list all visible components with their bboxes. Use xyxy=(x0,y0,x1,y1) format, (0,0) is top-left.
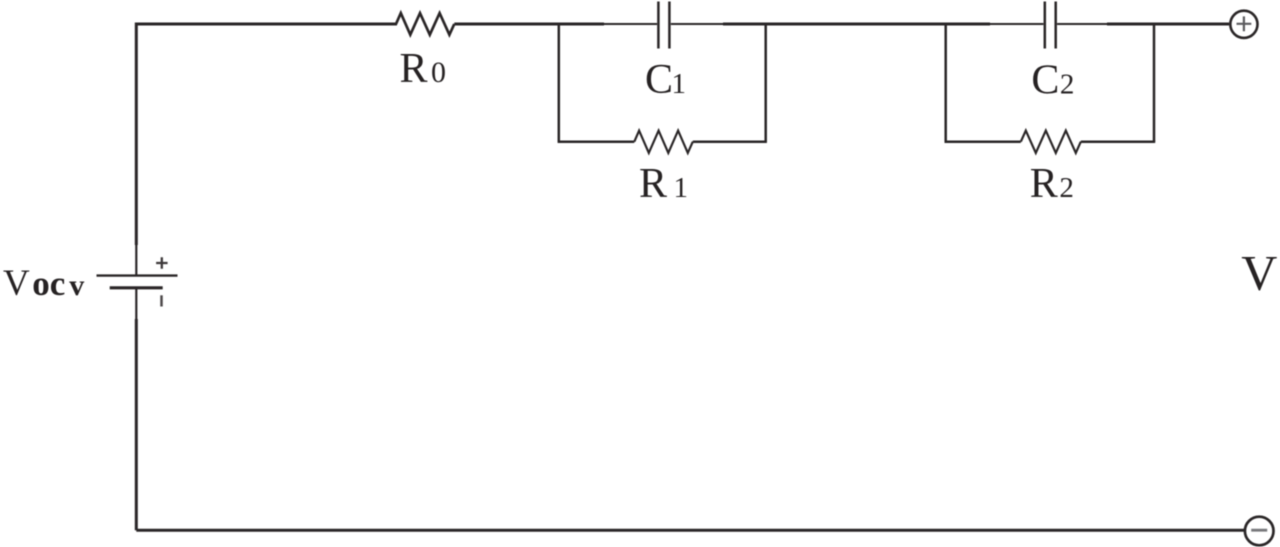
svg-text:V: V xyxy=(1241,245,1277,301)
svg-text:R2: R2 xyxy=(1030,161,1074,207)
wire: RC block 1 right vertical xyxy=(764,23,767,142)
wire: top-left corner (left rail upper + top rail to R0) xyxy=(136,24,397,245)
wire: RC block 2 left vertical xyxy=(944,23,947,142)
svg-text:R1: R1 xyxy=(639,161,688,207)
resistor R1 xyxy=(634,131,693,153)
wire: left rail lower xyxy=(135,319,138,530)
resistor R2 xyxy=(1021,131,1081,153)
wire: top rail from R0 to C1 branch xyxy=(454,23,604,26)
svg-text:R0: R0 xyxy=(400,46,447,92)
wire: RC block 1 left vertical xyxy=(558,23,561,142)
svg-text:C1: C1 xyxy=(645,57,686,103)
capacitor C2 xyxy=(990,2,1107,49)
svg-text:Vocv: Vocv xyxy=(3,263,84,304)
wire: RC block 1 bottom left segment xyxy=(558,140,635,143)
wire: RC block 2 right vertical xyxy=(1153,23,1156,142)
plus terminal xyxy=(1230,11,1257,38)
wire: top rail from C2 to plus terminal xyxy=(1107,23,1229,26)
wire: bottom rail xyxy=(136,529,1244,532)
wire: RC block 1 bottom right segment xyxy=(693,140,767,143)
resistor R0 xyxy=(396,13,454,35)
svg-text:C2: C2 xyxy=(1031,58,1074,104)
wire: RC block 2 bottom right segment xyxy=(1081,140,1155,143)
wire: top rail from C1 to C2 branch xyxy=(723,23,990,26)
minus terminal xyxy=(1245,517,1274,546)
battery V_OCV xyxy=(97,244,178,320)
capacitor C1 xyxy=(604,2,723,49)
wire: RC block 2 bottom left segment xyxy=(945,140,1021,143)
